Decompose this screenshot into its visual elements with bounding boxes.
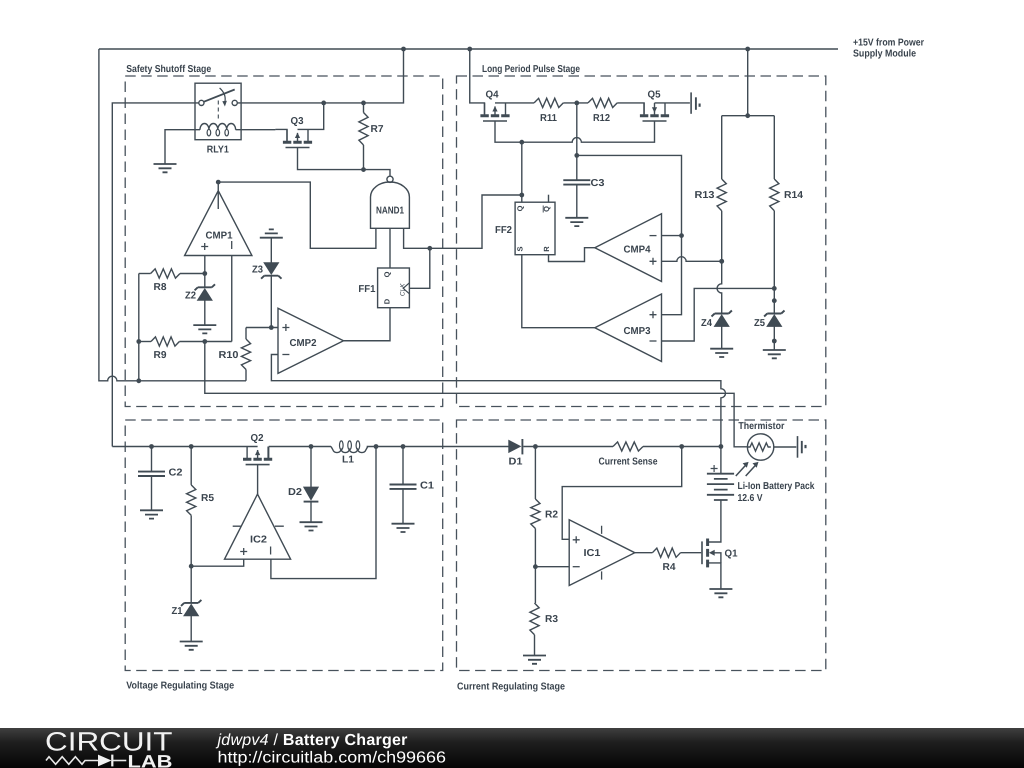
wire Q4 drain to R11 — [495, 102, 534, 104]
node R13 CMP4 plus junction duplicated — [719, 259, 724, 264]
svg-text:CMP2: CMP2 — [290, 338, 317, 349]
node R5/Z1/IC2 plus junction — [189, 564, 194, 569]
flip-flop FF1 — [358, 268, 409, 308]
Long Period Pulse Stage box — [457, 76, 826, 407]
wire IC2 minus feedback loop — [271, 447, 376, 579]
wire CMP1 minus net to thermistor branch — [205, 342, 748, 447]
node R9 left — [136, 339, 141, 344]
transistor Q1 — [702, 500, 738, 589]
wire CMP4 minus stub — [662, 235, 682, 237]
relay RLY1 — [195, 83, 241, 155]
logo CIRCUIT LAB — [45, 727, 173, 768]
svg-text:Current Regulating Stage: Current Regulating Stage — [457, 682, 565, 693]
svg-text:R4: R4 — [663, 562, 676, 573]
diode D1 — [509, 439, 523, 468]
node FF1 CLK branch — [427, 246, 432, 251]
ground Z1 — [180, 642, 203, 650]
node Z5 top wire junction — [772, 286, 777, 291]
wire FF2 R to CMP4 output — [549, 248, 595, 262]
node R11/R12 C3 junction — [574, 101, 579, 106]
resistor R7 — [359, 103, 384, 170]
svg-text:Z4: Z4 — [701, 318, 712, 329]
wire IC2 plus input — [191, 559, 244, 566]
wire Q2 gate to IC2 output — [257, 465, 259, 495]
svg-text:R9: R9 — [154, 350, 167, 361]
footer bar — [0, 728, 1024, 768]
svg-text:IC2: IC2 — [250, 535, 267, 546]
resistor R11 — [534, 98, 588, 124]
svg-text:Q3: Q3 — [291, 116, 304, 127]
ground Z5 — [763, 350, 786, 358]
wire CMP1 minus input down — [231, 256, 233, 342]
Voltage Regulating Stage box — [125, 420, 443, 671]
wire R13/R14 feed — [722, 49, 775, 116]
svg-text:+15V from Power: +15V from Power — [853, 38, 924, 49]
svg-text:FF1: FF1 — [358, 284, 375, 295]
op-amp CMP1 — [185, 191, 252, 256]
wire NAND1 input B from Q4 source net — [404, 195, 522, 248]
svg-text:R10: R10 — [219, 350, 239, 361]
svg-text:R2: R2 — [545, 510, 558, 521]
wire CMP4 plus to R13 — [662, 257, 722, 262]
diode D2 — [288, 444, 318, 522]
Current Regulating Stage box — [457, 420, 826, 671]
svg-text:Current Sense: Current Sense — [599, 457, 658, 468]
flip-flop FF2 — [495, 202, 555, 255]
battery cell at thermistor — [797, 436, 799, 458]
svg-text:Z2: Z2 — [185, 291, 196, 302]
ground Z4 — [710, 349, 733, 357]
capacitor C1 — [390, 444, 435, 524]
svg-text:Voltage Regulating Stage: Voltage Regulating Stage — [126, 681, 234, 692]
node FF2 Q riser — [519, 140, 524, 145]
svg-text:Z5: Z5 — [754, 318, 765, 329]
battery Li-Ion pack — [707, 465, 815, 504]
wire thermistor to battery cell — [774, 446, 797, 448]
wire FF2 Qbar stub — [548, 195, 550, 203]
svg-text:Z3: Z3 — [252, 265, 263, 276]
svg-text:L1: L1 — [342, 455, 354, 466]
resistor Current Sense — [599, 442, 658, 468]
wire Q5 drain to battery cell — [655, 102, 690, 104]
wire FF1 CLK — [409, 248, 429, 288]
svg-text:C3: C3 — [591, 178, 605, 189]
ground C3 — [565, 218, 588, 226]
ground RLY1 coil — [154, 164, 177, 172]
wire RLY1 coil right to Q3 source — [236, 129, 276, 131]
svg-text:CLK: CLK — [400, 283, 407, 296]
svg-text:Z1: Z1 — [172, 606, 183, 617]
ground Q1 — [709, 589, 732, 597]
wire +15V top rail — [99, 48, 838, 50]
svg-text:Li-Ion Battery Pack: Li-Ion Battery Pack — [738, 481, 815, 492]
svg-text:CMP1: CMP1 — [206, 231, 233, 242]
wire CMP1 plus input / Z2 branch — [204, 256, 206, 288]
node R7 bottom — [361, 167, 366, 172]
ground D2 — [300, 522, 323, 530]
node CMP1 output corner — [216, 180, 221, 185]
wire Q3 drain to top node — [298, 103, 324, 129]
resistor R3 — [530, 603, 559, 656]
svg-text:S: S — [515, 246, 524, 251]
svg-text:R14: R14 — [784, 190, 803, 201]
svg-text:RLY1: RLY1 — [207, 145, 229, 156]
wire FF2 S to CMP3 output — [522, 255, 595, 328]
svg-text:R3: R3 — [545, 614, 558, 625]
resistor R5 — [187, 444, 215, 603]
wire CMP2 output to FF1 D — [344, 308, 391, 341]
node C3 top branch — [574, 153, 579, 158]
svg-text:R11: R11 — [540, 113, 557, 124]
svg-text:Thermistor: Thermistor — [738, 421, 784, 432]
wire CMP1 output to NAND1 input A — [218, 182, 376, 248]
svg-text:D2: D2 — [288, 487, 302, 498]
svg-text:D: D — [382, 298, 391, 304]
wire RLY1 coil left to ground — [165, 130, 200, 164]
resistor R2 — [531, 447, 559, 604]
op-amp CMP3 — [595, 294, 662, 362]
node CMP4 minus tap — [679, 233, 684, 238]
node R13/R14 tee — [745, 113, 750, 118]
svg-text:R8: R8 — [154, 282, 167, 293]
op-amp IC2 — [225, 494, 291, 559]
svg-text:NAND1: NAND1 — [376, 206, 404, 217]
op-amp CMP2 — [278, 308, 344, 373]
node Q3 drain riser — [321, 101, 326, 106]
node battery plus on main bus — [719, 444, 724, 449]
svg-text:CMP4: CMP4 — [624, 245, 651, 256]
svg-text:R13: R13 — [695, 190, 715, 201]
svg-text:Long Period Pulse Stage: Long Period Pulse Stage — [482, 64, 580, 75]
node R2/R3 IC1 minus junction — [533, 564, 538, 569]
node IC1 plus feedback tap — [679, 444, 684, 449]
svg-text:R5: R5 — [201, 493, 214, 504]
svg-text:Q5: Q5 — [648, 90, 661, 101]
resistor R13 — [695, 116, 727, 314]
thermistor — [736, 421, 785, 476]
node feedback tap on bus — [374, 444, 379, 449]
zener Z4 — [701, 311, 732, 349]
node R8 right — [202, 271, 207, 276]
svg-text:Safety Shutoff Stage: Safety Shutoff Stage — [126, 64, 211, 75]
wire NAND1 center pin to FF1 Q — [389, 228, 391, 268]
resistor R8 — [139, 269, 205, 293]
transistor Q5 — [640, 90, 669, 122]
node junction R8/R9 riser on rail — [136, 378, 141, 383]
node junction top rail to R13/R14 — [745, 47, 750, 52]
transistor Q3 — [275, 116, 312, 148]
svg-text:http://circuitlab.com/ch99666: http://circuitlab.com/ch99666 — [218, 750, 447, 767]
resistor R14 — [770, 116, 804, 301]
op-amp CMP4 — [595, 214, 662, 282]
resistor R4 — [635, 548, 701, 573]
svg-text:LAB: LAB — [128, 752, 173, 768]
wire RLY1 left contact to left bus — [112, 103, 199, 447]
node D1 cathode R2 junction — [533, 444, 538, 449]
zener Z2 — [185, 284, 215, 325]
svg-text:D1: D1 — [509, 457, 523, 468]
node junction top rail to Q4 — [467, 47, 472, 52]
ground R3 — [523, 656, 546, 664]
wire R10 top to CMP2 plus — [246, 327, 278, 329]
svg-text:Q: Q — [515, 205, 524, 211]
wire main bus RLY1 to battery — [112, 446, 257, 448]
capacitor C2 — [138, 444, 183, 510]
svg-text:IC1: IC1 — [584, 548, 601, 559]
node Z3 lead junction — [269, 325, 274, 330]
ground C1 — [392, 524, 415, 532]
wire IC1 plus input from current sense — [562, 447, 682, 540]
svg-text:R7: R7 — [371, 124, 384, 135]
ground C2 — [140, 510, 163, 518]
resistor R12 — [588, 98, 644, 124]
svg-text:C1: C1 — [420, 481, 434, 492]
resistor R10 — [219, 328, 251, 381]
node R9 right / CMP2 minus net — [202, 339, 207, 344]
inductor L1 — [331, 441, 368, 466]
svg-text:Q1: Q1 — [725, 549, 738, 560]
node R7 top — [361, 101, 366, 106]
logic gate NAND1 — [371, 176, 410, 228]
wire RLY1 right contact to Q3 drain node — [237, 49, 403, 103]
transistor Q4 — [470, 49, 510, 121]
battery cell symbol at Q5 — [690, 92, 692, 113]
svg-text:Q: Q — [382, 271, 391, 277]
wire CMP2 minus to battery plus rail — [271, 355, 725, 474]
svg-text:CMP3: CMP3 — [624, 326, 651, 337]
wire IC1 minus input — [535, 566, 569, 568]
node FF2 Q NAND-B junction — [519, 193, 524, 198]
Safety Shutoff Stage box — [125, 76, 443, 407]
zener Z1 — [172, 600, 202, 642]
svg-text:Q2: Q2 — [251, 433, 264, 444]
svg-text:FF2: FF2 — [495, 225, 512, 236]
wire C3 node to CMP4 minus — [577, 155, 682, 314]
transistor Q2 — [243, 433, 272, 465]
resistor R9 — [139, 337, 232, 361]
zener Z3 with inverted ground — [252, 229, 283, 327]
zener Z5 — [754, 298, 785, 350]
node junction top rail to Q3 node — [401, 47, 406, 52]
wire FF2 Q pin up to Q4/Q5 net — [521, 142, 523, 202]
op-amp IC1 — [569, 520, 635, 586]
wire left rail down from +15V — [99, 49, 246, 381]
svg-text:12.6 V: 12.6 V — [738, 493, 763, 504]
node CMP4 plus on R13 line — [719, 259, 724, 264]
svg-text:R: R — [542, 246, 551, 252]
wire Q3 gate to NAND1 output node — [298, 148, 391, 177]
svg-text:R12: R12 — [593, 113, 610, 124]
svg-text:jdwpv4 / Battery Charger: jdwpv4 / Battery Charger — [216, 732, 408, 749]
ground Z2 — [193, 325, 216, 333]
svg-text:Q4: Q4 — [486, 90, 499, 101]
wire R8/R9 left riser — [138, 274, 140, 381]
svg-text:Supply Module: Supply Module — [853, 49, 916, 60]
wire CMP3 minus to Z5 node — [662, 288, 775, 341]
wire Q4 gate source net to Q5 — [495, 121, 655, 142]
svg-text:C2: C2 — [169, 468, 183, 479]
capacitor C3 — [563, 103, 605, 218]
